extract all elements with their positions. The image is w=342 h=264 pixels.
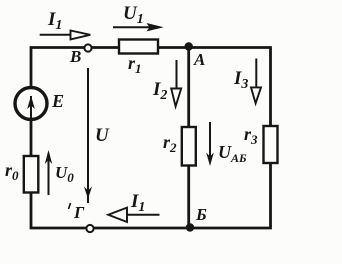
svg-text:U: U <box>95 125 110 146</box>
svg-text:Б: Б <box>195 205 207 224</box>
svg-text:A: A <box>193 50 205 69</box>
svg-text:E: E <box>51 91 64 111</box>
svg-text:Г: Г <box>73 203 85 222</box>
svg-text:В: В <box>69 47 81 66</box>
